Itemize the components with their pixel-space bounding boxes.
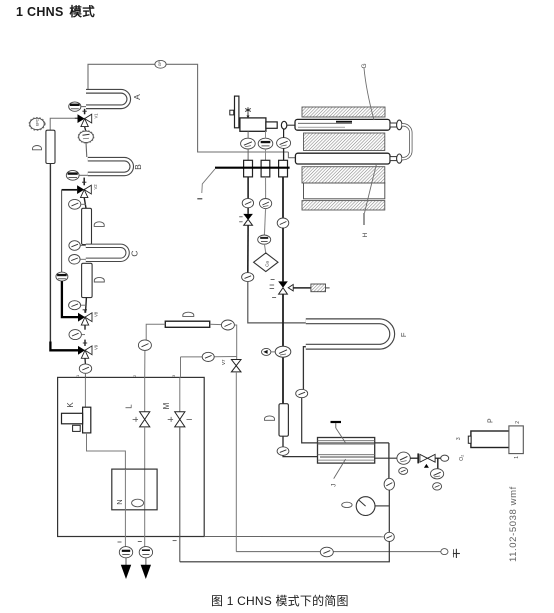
fitting ellipse on tube A outlet	[69, 102, 86, 111]
wire detector outlet right	[375, 457, 397, 459]
wire pump outlet to N box	[87, 433, 126, 469]
label column 2 (half-capsule)	[94, 277, 104, 282]
wire box bottom extension to pump circle	[204, 536, 385, 538]
wire line2 in box	[144, 377, 146, 411]
wire f2 chain fitting to gauge	[265, 177, 267, 199]
gauge 1 on f2 chain	[260, 199, 272, 209]
wire V8 to gauge	[84, 325, 86, 330]
valve V9 (3-way)	[78, 343, 99, 358]
vent end cap	[441, 549, 448, 555]
injector port ellipse 2	[258, 138, 273, 149]
wire V9 to gauge	[84, 358, 86, 364]
wire tube E left to gauge	[146, 324, 165, 340]
wire gauge to V4	[282, 228, 284, 281]
exhaust arrow 2	[141, 565, 151, 579]
u-tube B	[88, 159, 132, 174]
svg-text:1: 1	[514, 456, 520, 459]
wire u-tube F outlet down	[303, 347, 305, 390]
gauge left of C outlet	[69, 254, 86, 264]
gauge on f1 chain	[242, 198, 253, 207]
svg-text:J: J	[330, 484, 337, 487]
wire gauge to V3	[247, 208, 249, 214]
gauge V5 circle	[397, 452, 410, 464]
wire V4 down to GC column	[282, 294, 284, 404]
fitting 1	[244, 160, 253, 177]
label GC column (half-capsule)	[265, 416, 275, 420]
svg-text:N: N	[115, 499, 124, 504]
injector body	[240, 118, 266, 131]
furnace hatched block 3	[302, 167, 385, 183]
u-bend connector right of furnace	[402, 125, 411, 159]
wire gauge to diamond	[264, 244, 265, 253]
u-tube F	[306, 321, 392, 346]
wire body to port 1	[247, 131, 249, 138]
svg-text:GP: GP	[158, 61, 162, 67]
wire vent line bottom	[236, 551, 441, 553]
fitting 3	[279, 160, 288, 177]
gauge above box K line 1	[79, 364, 91, 373]
wire V3 to gauge	[247, 225, 249, 272]
wire f3 chain fitting down	[282, 177, 284, 218]
svg-text:V7: V7	[221, 359, 226, 365]
injector nozzle	[266, 122, 277, 128]
svg-text:V8: V8	[94, 311, 99, 317]
flowmeter 2	[139, 547, 152, 558]
injector knob	[230, 110, 234, 115]
flowmeter 1	[119, 547, 132, 558]
wire bypass thick feed to V8	[62, 281, 78, 317]
label E (half-capsule above tube)	[183, 312, 194, 316]
svg-text:A: A	[132, 94, 142, 100]
fitting ellipse on tube B outlet	[66, 170, 88, 180]
valve V7	[231, 360, 241, 372]
valve V2 (3-way)	[77, 182, 98, 197]
svg-text:3: 3	[456, 437, 462, 440]
vent hatch symbol	[311, 284, 330, 292]
sample drop symbol	[245, 107, 251, 118]
small pointer oval left of gauge	[262, 348, 276, 355]
svg-text:K: K	[66, 402, 75, 408]
combustion tube	[295, 119, 390, 130]
svg-text:H: H	[362, 232, 369, 237]
svg-text:V9: V9	[94, 344, 99, 350]
svg-text:V1: V1	[94, 113, 99, 119]
wire to gauge 2	[264, 209, 265, 236]
reduction tube	[295, 153, 390, 164]
injector outlet oval	[281, 121, 286, 129]
diamond sensor	[254, 253, 278, 272]
svg-text:11.02-5038 wmf: 11.02-5038 wmf	[508, 486, 519, 562]
wire jog into reduction tube	[288, 152, 295, 158]
wire injector to combustion tube	[287, 124, 295, 126]
O2 cylinder cap	[509, 426, 523, 454]
box K enclosure	[58, 377, 205, 536]
label D (rotated half-capsule)	[33, 146, 42, 150]
leader to label I	[202, 169, 215, 193]
wire body to port 2	[265, 131, 267, 138]
wire column2 to V8	[85, 298, 88, 313]
N box	[112, 469, 157, 510]
wire f1 chain to u-tube F	[248, 282, 306, 323]
tiny outlet labels under box	[118, 541, 122, 543]
valve V1 (3-way)	[75, 111, 99, 126]
pressure gauge Q	[342, 497, 389, 516]
circle junction on return line	[384, 532, 394, 541]
svg-text:P: P	[487, 418, 494, 423]
wire column to gauge	[282, 436, 284, 447]
label J with leader	[334, 459, 346, 479]
label column 1 (half-capsule)	[94, 222, 104, 227]
gauge below column 2	[69, 301, 86, 310]
gauge right of tube E	[221, 320, 234, 330]
wire tube E right to gauge	[210, 323, 222, 325]
svg-text:O2: O2	[459, 455, 465, 461]
valve L	[133, 412, 150, 427]
gauge on line 2 above box	[138, 340, 151, 351]
wire flowmeter outlets	[125, 558, 127, 565]
wire main line thick turn to V9	[50, 342, 78, 351]
svg-text:EPC: EPC	[36, 118, 40, 126]
GC column	[279, 404, 288, 437]
wire B outlet to valve V2	[83, 178, 85, 186]
wire V2 to column 1	[84, 198, 86, 209]
wire V1 to MFC gauge	[85, 127, 86, 132]
wire line3 in box	[179, 377, 181, 411]
gauge below F	[296, 389, 308, 397]
svg-text:Ca: Ca	[265, 261, 270, 267]
O2 cylinder nipple	[468, 436, 471, 443]
gauge left of C inlet	[69, 241, 86, 251]
u-tube C	[86, 246, 128, 260]
wire line1 inside box	[84, 377, 86, 407]
wire f1 chain fitting to gauge	[247, 177, 249, 199]
injector tower plate	[235, 96, 239, 128]
wire bypass vertical line	[61, 190, 63, 272]
wire to lower circle	[388, 490, 390, 532]
wire right return line down	[388, 443, 390, 479]
column D	[46, 130, 55, 163]
wire gauge to V9	[84, 340, 86, 346]
wire port1 to fitting1	[247, 149, 249, 160]
svg-text:图 1 CHNS 模式下的简图: 图 1 CHNS 模式下的简图	[211, 593, 349, 608]
combustion tube right stem and nut	[390, 123, 397, 127]
wire T branch down to gauges	[437, 458, 439, 469]
wire nozzle to port 3	[283, 129, 285, 138]
wire V7 down to vent line	[235, 372, 237, 552]
exhaust arrow 1	[121, 565, 131, 579]
valve V5 with stop bar	[410, 453, 435, 467]
wire MFC1 to u-tube B	[85, 143, 88, 158]
valve V4 with vent branch	[270, 280, 294, 298]
svg-text:F: F	[399, 332, 408, 337]
svg-text:B: B	[133, 164, 143, 170]
wire port3 to fitting3	[283, 148, 285, 160]
wire main left line	[49, 164, 51, 343]
circle on vent line	[320, 547, 333, 557]
svg-text:C: C	[130, 250, 140, 256]
vent symbol label	[453, 549, 460, 558]
wire V2 feed from bypass line	[62, 189, 78, 191]
wire gauge into detector	[283, 455, 318, 456]
injector port ellipse 1	[241, 138, 256, 149]
furnace hatched block 2	[304, 133, 385, 151]
wire gauge into box K	[84, 373, 86, 377]
wire top loop	[88, 64, 288, 152]
O2 cylinder P body	[471, 431, 510, 448]
gauge MFC1	[78, 130, 94, 143]
wire branch to line3 with gauge	[214, 356, 237, 358]
svg-text:2: 2	[515, 421, 521, 424]
thermocouple symbol on detector	[331, 422, 346, 443]
O2 end cap oval	[441, 455, 449, 461]
column 1	[82, 208, 92, 244]
small gauge lower	[433, 483, 442, 490]
column 2	[82, 263, 93, 297]
wire port2 to fitting2	[265, 149, 267, 160]
wire A outlet to valve V1	[84, 109, 86, 114]
injector port ellipse 3	[277, 138, 291, 149]
wire gauge down to box top	[144, 351, 146, 378]
wire line3 down and out of box	[179, 427, 181, 562]
tube E	[165, 321, 209, 327]
svg-text:V2: V2	[93, 184, 98, 190]
gauge GP on top line	[155, 60, 166, 68]
detector block	[318, 438, 375, 464]
furnace hatched block 1	[302, 107, 385, 117]
gauge below V3	[242, 273, 254, 282]
svg-text:G: G	[361, 63, 368, 68]
gauge on return line	[384, 478, 394, 490]
furnace hatched block 4	[302, 201, 385, 210]
wire gauge to detector top channel	[302, 398, 389, 443]
gauge on line with pointer oval	[275, 346, 291, 357]
gauge on branch	[202, 352, 214, 361]
wire return line to box line 3	[180, 542, 389, 562]
pump K	[62, 407, 91, 433]
gauge on f3 chain	[277, 218, 289, 228]
wire column D top to valve V1	[50, 118, 74, 130]
valve V3	[239, 214, 253, 225]
gauge below GC column	[277, 447, 289, 456]
wire N box to flowmeter 1	[124, 469, 126, 546]
reduction tube right stem and nut	[390, 157, 397, 161]
u-tube A	[86, 91, 129, 107]
valve V8 (3-way)	[78, 310, 99, 325]
wire line2 to flowmeter	[144, 427, 146, 547]
svg-text:1 CHNS 模式: 1 CHNS 模式	[16, 4, 95, 19]
wire V5 to O2 inlet	[435, 457, 441, 459]
fitting 2	[261, 160, 270, 177]
EPC1 gauge	[29, 117, 46, 130]
wire V4 vent branch	[293, 287, 311, 289]
gauge 2 on f2 chain	[258, 235, 271, 244]
valve M	[168, 412, 192, 427]
fitting ellipse on bypass line	[56, 272, 68, 281]
label H with leader	[365, 164, 377, 213]
small gauge below V5 circle	[399, 468, 408, 475]
gauge below V8	[69, 330, 85, 340]
thick sample transfer line	[215, 167, 290, 169]
wire gauge to V7 line	[234, 325, 236, 360]
gauge below O2 tee	[431, 469, 444, 479]
furnace white block	[304, 183, 385, 199]
gauge below V2	[69, 199, 86, 209]
svg-text:L: L	[125, 404, 134, 409]
svg-text:M: M	[162, 402, 171, 409]
oval inside N box	[132, 499, 144, 507]
